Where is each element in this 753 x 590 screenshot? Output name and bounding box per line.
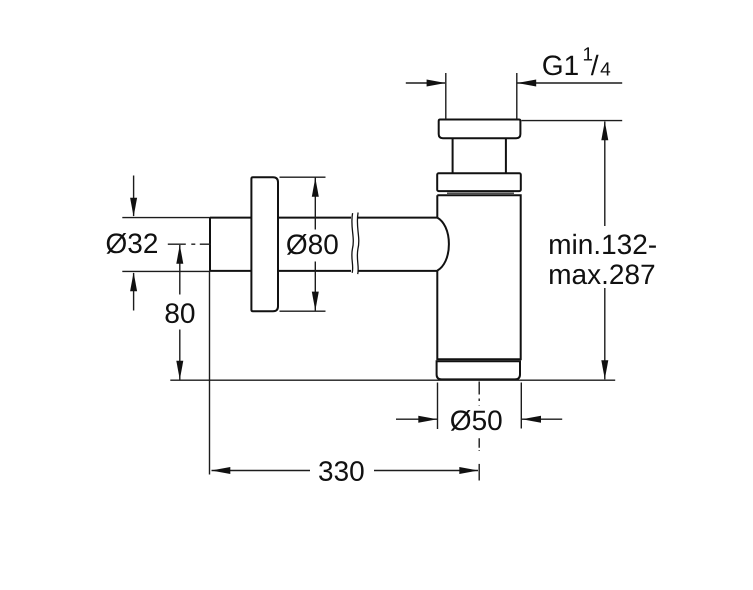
bottom cap <box>437 361 520 379</box>
arrow 330 left (points left) <box>211 467 230 474</box>
minmax dim line upper <box>604 122 606 227</box>
bevel line below ring <box>447 192 514 194</box>
G1 extension line left <box>445 73 447 120</box>
bottle centerline dash-dot upper <box>478 382 480 407</box>
Ø50 extension line right <box>520 383 522 429</box>
arrow Ø50 right (points left) <box>522 416 541 423</box>
body cylinder <box>437 195 520 359</box>
80 dim line upper <box>179 245 181 295</box>
arrow 80 down <box>176 361 183 380</box>
330 dim line left part <box>212 470 311 472</box>
arrow minmax down <box>601 360 608 379</box>
bottle centerline dash-dot mid <box>478 438 480 451</box>
bottle centerline solid lower <box>478 464 480 481</box>
label min.132- <box>550 234 656 255</box>
Ø80 dim line lower <box>314 262 316 312</box>
wire pipe top edge <box>210 217 351 219</box>
pipe-body bulge <box>437 218 449 271</box>
330 left extension line <box>209 272 211 475</box>
top flange cap <box>439 120 521 139</box>
label sub 4 <box>601 62 611 75</box>
wire pipe top edge right of break <box>358 217 437 219</box>
label Ø80 <box>287 234 338 255</box>
wire pipe left end <box>209 218 211 271</box>
pipe break squiggle right <box>357 213 358 275</box>
arrow G1 right (points left) <box>517 80 536 87</box>
Ø80 top extension line <box>280 176 326 178</box>
330 dim line right part <box>374 470 478 472</box>
ring flange <box>437 173 521 191</box>
top extension line to minmax <box>522 120 623 122</box>
arrow Ø32 top (points down) <box>130 198 137 217</box>
bottom extension line <box>170 379 615 381</box>
neck between cap and ring <box>453 138 506 173</box>
G1 extension line right <box>516 73 518 120</box>
label G1 <box>543 55 578 75</box>
arrow Ø80 down <box>312 292 319 311</box>
arrow Ø80 up <box>312 178 319 197</box>
arrow minmax up <box>601 121 608 140</box>
Ø50 extension line left <box>437 383 439 430</box>
label Ø50 <box>451 410 502 431</box>
label max.287 <box>550 264 654 284</box>
label sup 1 <box>584 47 592 60</box>
label 330 <box>319 461 364 481</box>
Ø32 upper arrow line <box>133 176 135 217</box>
Ø32 top extension line <box>122 217 210 219</box>
wire pipe bottom edge <box>210 270 351 272</box>
arrow Ø32 bottom (points up) <box>130 272 137 291</box>
Ø50 arrow line left <box>396 418 437 420</box>
pipe centerline dash-dot <box>168 243 211 245</box>
label Ø32 <box>107 233 158 254</box>
G1 dim line right part <box>517 82 622 84</box>
80 dim line lower <box>179 330 181 380</box>
arrow 80 up <box>176 245 183 264</box>
rosette wall flange <box>251 177 278 311</box>
label 80 <box>166 303 195 323</box>
label slash <box>591 55 599 76</box>
Ø32 bottom extension line <box>122 270 210 272</box>
minmax dim line lower <box>604 288 606 379</box>
G1 dim line left part <box>406 82 445 84</box>
Ø80 dim line upper <box>314 177 316 229</box>
wire pipe bottom edge right of break <box>358 270 437 272</box>
Ø32 lower arrow line <box>133 273 135 311</box>
Ø50 arrow line right <box>522 418 562 420</box>
pipe break squiggle left <box>352 213 353 273</box>
arrow 330 right (points right) <box>459 467 478 474</box>
arrow Ø50 left (points right) <box>418 416 437 423</box>
Ø80 bottom extension line <box>280 310 326 312</box>
arrow G1 left (points right) <box>427 80 446 87</box>
